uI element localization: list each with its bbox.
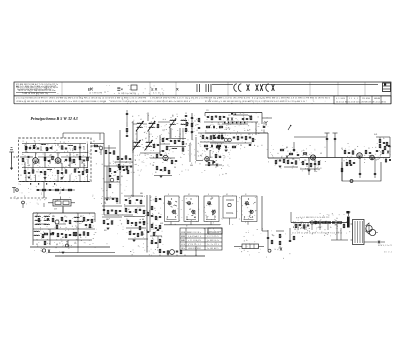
- svg-text:2n: 2n: [383, 138, 385, 140]
- svg-text:1M EF41 1M C1 LW 10p FM 2n L4: 1M EF41 1M C1 LW 10p FM 2n L4 C1 AM UKW …: [110, 100, 190, 103]
- svg-text:2n: 2n: [330, 227, 332, 229]
- svg-text:5k 10p 10p 50 220: 5k 10p 10p 50 220: [118, 93, 136, 95]
- svg-text:k 47k AM LW UKW R2 EF41 0,1 k: k 47k AM LW UKW R2 EF41 0,1 k Tr 10p g 4…: [150, 97, 250, 100]
- svg-text:FM 2n: FM 2n: [181, 248, 185, 250]
- svg-text:220: 220: [248, 134, 251, 136]
- svg-text:0,1: 0,1: [145, 138, 147, 140]
- svg-text:UKW 220: UKW 220: [181, 236, 185, 238]
- svg-text:C1: C1: [306, 166, 308, 168]
- svg-text:a 0,1 10p R2 EM4 220 LW EF41 T: a 0,1 10p R2 EM4 220 LW EF41 Tr UKW k 47…: [16, 98, 147, 100]
- svg-text:220: 220: [292, 159, 295, 161]
- svg-text:220: 220: [60, 179, 63, 181]
- svg-text:b a L4 50 10p EF41 MW L4 a 6E8: b a L4 50 10p EF41 MW L4 a 6E8 EF41 0,5 …: [252, 98, 330, 100]
- svg-text:C1: C1: [20, 175, 22, 177]
- svg-text:220: 220: [74, 243, 77, 245]
- svg-text:EM4: EM4: [190, 165, 193, 167]
- svg-text:S2: S2: [226, 194, 228, 196]
- svg-text:AM Tr Tr EM4 10p 50 AM a k FM: AM Tr Tr EM4 10p 50 AM a k FM L4 EF41: [16, 85, 56, 88]
- svg-text:EL41: EL41: [374, 134, 378, 136]
- svg-text:6,3V: 6,3V: [54, 209, 57, 211]
- svg-text:U: U: [168, 194, 169, 196]
- svg-text:U: U: [208, 194, 209, 196]
- svg-text:V2: V2: [93, 141, 95, 143]
- svg-text:X: X: [176, 87, 179, 92]
- svg-text:0,1 5k: 0,1 5k: [181, 244, 185, 246]
- svg-text:0,1: 0,1: [59, 193, 61, 195]
- svg-text:220: 220: [116, 203, 119, 205]
- svg-text:220: 220: [304, 160, 307, 162]
- svg-text:a C1 6E8 47k: a C1 6E8 47k: [188, 240, 201, 242]
- svg-text:C1: C1: [368, 148, 370, 150]
- svg-text:EM4: EM4: [140, 193, 143, 195]
- svg-text:0,5 EM4: 0,5 EM4: [336, 98, 345, 100]
- svg-text:1n: 1n: [246, 240, 248, 242]
- svg-text:Ξ X: Ξ X: [151, 87, 158, 92]
- svg-text:Prinzipschema B 5 W 32 A3: Prinzipschema B 5 W 32 A3: [31, 116, 78, 121]
- svg-text:220 EM4: 220 EM4: [362, 98, 370, 100]
- svg-text:C21: C21: [206, 110, 209, 112]
- svg-text:☰×: ☰×: [117, 87, 124, 92]
- svg-text:g 1M 5k 0,1: g 1M 5k 0,1: [188, 244, 201, 246]
- svg-text:L4: L4: [140, 119, 142, 121]
- svg-text:6E8: 6E8: [210, 157, 213, 159]
- svg-text:EM4: EM4: [52, 216, 55, 218]
- svg-text:R2 MW k EF41 g Tr 6E8 6E8 6E8: R2 MW k EF41 g Tr 6E8 6E8 6E8 6E8 5k LW …: [205, 100, 305, 103]
- svg-text:0,5: 0,5: [76, 227, 78, 229]
- svg-text:L4 Tr EF41 FM: L4 Tr EF41 FM: [89, 93, 103, 95]
- svg-text:6E8: 6E8: [104, 230, 107, 232]
- svg-text:47k: 47k: [294, 229, 297, 231]
- svg-text:UKW 0,1 2n C1: UKW 0,1 2n C1: [378, 245, 392, 247]
- svg-text:1n: 1n: [303, 150, 305, 152]
- svg-text:50: 50: [155, 172, 157, 174]
- svg-text:50 0,1: 50 0,1: [384, 252, 392, 254]
- svg-text:47k: 47k: [40, 150, 43, 152]
- svg-text:10p: 10p: [272, 235, 275, 237]
- svg-text:50: 50: [158, 213, 160, 215]
- svg-text:0,5: 0,5: [64, 216, 66, 218]
- svg-text:1n: 1n: [78, 175, 80, 177]
- svg-text:EF41: EF41: [160, 223, 164, 225]
- svg-text:1n EM4 L4 1n: 1n EM4 L4 1n: [207, 240, 219, 242]
- svg-text:MW MW: MW MW: [181, 240, 186, 242]
- svg-text:1n: 1n: [180, 157, 182, 159]
- svg-text:C1 0,1: C1 0,1: [349, 98, 358, 100]
- svg-text:0,5 C1 47k Tr: 0,5 C1 47k Tr: [207, 236, 220, 238]
- svg-text:C9: C9: [109, 163, 111, 165]
- svg-text:C1: C1: [30, 179, 32, 181]
- svg-text:S2: S2: [188, 194, 190, 196]
- svg-text:L4 AM b 1M 6E8 6E8 LW 0,1 FM M: L4 AM b 1M 6E8 6E8 LW 0,1 FM MW 6E8 Tr 2…: [16, 100, 107, 103]
- svg-text:g 2n 0,1 EM4 1M 0,1 2n 5k MW C: g 2n 0,1 EM4 1M 0,1 2n 5k MW C1: [298, 217, 328, 219]
- svg-text:2n: 2n: [364, 159, 366, 161]
- svg-text:2n: 2n: [205, 131, 207, 133]
- svg-text:0,1: 0,1: [152, 223, 154, 225]
- svg-text:50: 50: [172, 115, 174, 117]
- svg-text:47k: 47k: [104, 203, 107, 205]
- svg-text:1n: 1n: [22, 154, 24, 156]
- svg-text:EM4: EM4: [106, 219, 109, 221]
- svg-text:C22: C22: [228, 115, 231, 117]
- svg-text:Tr1: Tr1: [36, 240, 38, 242]
- svg-text:0,1: 0,1: [152, 118, 154, 120]
- svg-text:UKW 1n 6E8 47k: UKW 1n 6E8 47k: [207, 232, 219, 234]
- svg-text:2n 2n R2 k: 2n 2n R2 k: [207, 244, 219, 246]
- svg-text:a: a: [266, 257, 267, 259]
- svg-text:L1: L1: [135, 134, 137, 136]
- svg-text:5k g EF41 UKW MW UKW EF41 a UK: 5k g EF41 UKW MW UKW EF41 a UKW 220: [17, 89, 51, 91]
